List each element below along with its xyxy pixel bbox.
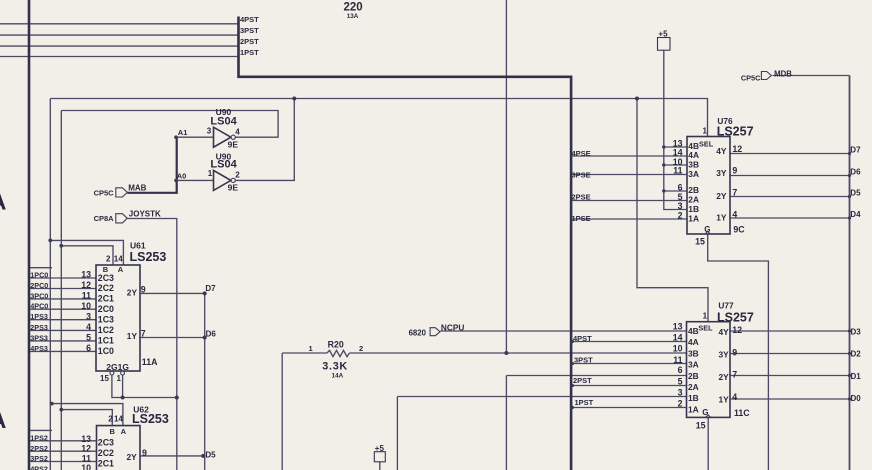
- svg-text:LS253: LS253: [130, 250, 167, 264]
- svg-text:1PS3: 1PS3: [30, 312, 48, 321]
- svg-text:13A: 13A: [347, 13, 359, 20]
- svg-text:6: 6: [678, 365, 683, 375]
- svg-text:D3: D3: [851, 327, 862, 336]
- svg-text:2: 2: [678, 399, 683, 409]
- svg-text:5: 5: [86, 332, 91, 342]
- svg-text:SEL: SEL: [699, 139, 714, 148]
- svg-text:1A: 1A: [688, 213, 699, 223]
- svg-text:D1: D1: [851, 372, 862, 381]
- svg-text:2: 2: [106, 254, 111, 263]
- svg-text:4A: 4A: [688, 337, 699, 347]
- svg-text:CP5C: CP5C: [94, 189, 115, 198]
- svg-text:3PST: 3PST: [240, 26, 259, 35]
- svg-text:15: 15: [100, 374, 109, 383]
- svg-text:10: 10: [81, 463, 91, 470]
- svg-text:7: 7: [141, 329, 146, 339]
- svg-text:2: 2: [678, 211, 683, 221]
- svg-text:1Y: 1Y: [127, 331, 138, 341]
- svg-text:LS257: LS257: [717, 310, 754, 324]
- svg-text:12: 12: [81, 443, 91, 453]
- svg-text:12: 12: [732, 144, 742, 154]
- svg-text:3: 3: [678, 388, 683, 398]
- svg-text:1PST: 1PST: [575, 398, 594, 407]
- svg-text:SEL: SEL: [698, 324, 713, 333]
- svg-text:D6: D6: [850, 168, 861, 177]
- svg-text:9: 9: [732, 347, 737, 357]
- svg-text:14: 14: [114, 415, 123, 424]
- svg-text:A0: A0: [177, 172, 187, 181]
- svg-text:1PS2: 1PS2: [30, 433, 48, 442]
- svg-text:4Y: 4Y: [719, 327, 730, 337]
- svg-text:4PST: 4PST: [573, 334, 592, 343]
- svg-text:3B: 3B: [688, 160, 699, 170]
- svg-text:2Y: 2Y: [719, 372, 730, 382]
- svg-text:U61: U61: [130, 240, 146, 250]
- svg-text:1PC0: 1PC0: [30, 271, 48, 280]
- svg-text:3B: 3B: [688, 349, 699, 359]
- svg-text:11: 11: [673, 355, 682, 365]
- svg-text:2: 2: [359, 344, 363, 353]
- svg-text:D6: D6: [206, 329, 217, 338]
- svg-text:1C0: 1C0: [98, 346, 114, 356]
- svg-text:13: 13: [673, 321, 683, 331]
- svg-text:4Y: 4Y: [716, 146, 727, 156]
- svg-text:A: A: [0, 189, 6, 215]
- svg-text:10: 10: [673, 344, 683, 354]
- svg-text:4PC0: 4PC0: [30, 302, 48, 311]
- svg-text:6820: 6820: [409, 328, 427, 337]
- svg-text:4PST: 4PST: [240, 15, 259, 24]
- svg-text:2B: 2B: [688, 371, 699, 381]
- svg-text:9E: 9E: [228, 183, 239, 193]
- svg-text:3.3K: 3.3K: [322, 361, 348, 373]
- svg-text:1C2: 1C2: [98, 325, 114, 335]
- svg-text:LS04: LS04: [210, 115, 237, 127]
- svg-text:D7: D7: [205, 284, 216, 293]
- svg-text:D5: D5: [205, 451, 216, 460]
- svg-text:2C2: 2C2: [98, 283, 114, 293]
- svg-text:1B: 1B: [688, 204, 699, 214]
- svg-text:2: 2: [235, 170, 240, 179]
- svg-text:5: 5: [678, 376, 683, 386]
- svg-text:3PST: 3PST: [574, 356, 593, 365]
- svg-text:4PS2: 4PS2: [30, 464, 48, 470]
- svg-text:3PS2: 3PS2: [30, 454, 48, 463]
- svg-text:3PC0: 3PC0: [30, 291, 48, 300]
- svg-text:2PSE: 2PSE: [572, 192, 591, 201]
- svg-text:1A: 1A: [688, 404, 699, 414]
- svg-text:1C1: 1C1: [98, 335, 114, 345]
- svg-text:1: 1: [117, 374, 122, 383]
- svg-text:6: 6: [678, 182, 683, 192]
- svg-text:9: 9: [732, 166, 737, 176]
- svg-text:10: 10: [81, 301, 91, 311]
- svg-text:2C3: 2C3: [98, 438, 114, 448]
- svg-text:4PSE: 4PSE: [572, 149, 591, 158]
- svg-text:13: 13: [81, 434, 91, 444]
- svg-text:11A: 11A: [142, 357, 158, 367]
- svg-text:15: 15: [696, 420, 706, 430]
- svg-text:4: 4: [86, 322, 91, 332]
- svg-text:CP8A: CP8A: [94, 214, 115, 223]
- svg-text:2: 2: [108, 415, 113, 424]
- svg-text:2C0: 2C0: [98, 304, 114, 314]
- svg-text:3PSE: 3PSE: [572, 170, 591, 179]
- svg-text:LS04: LS04: [210, 159, 237, 171]
- svg-text:D7: D7: [850, 145, 861, 154]
- svg-text:3: 3: [678, 201, 683, 211]
- svg-text:2PST: 2PST: [573, 376, 592, 385]
- svg-text:3PS3: 3PS3: [30, 333, 48, 342]
- svg-text:3Y: 3Y: [716, 168, 727, 178]
- svg-text:R20: R20: [328, 339, 344, 349]
- svg-text:4: 4: [732, 392, 737, 402]
- svg-text:15: 15: [695, 236, 705, 246]
- svg-text:LS257: LS257: [717, 125, 754, 139]
- svg-text:A: A: [121, 427, 127, 436]
- svg-text:A1: A1: [178, 128, 188, 137]
- svg-text:220: 220: [344, 2, 363, 14]
- svg-text:6: 6: [86, 343, 91, 353]
- svg-text:1: 1: [703, 126, 708, 135]
- svg-text:3A: 3A: [688, 360, 699, 370]
- svg-text:2G1G: 2G1G: [106, 362, 129, 372]
- svg-text:LS253: LS253: [132, 412, 169, 426]
- svg-text:+5: +5: [658, 29, 668, 38]
- svg-text:A: A: [0, 407, 6, 433]
- svg-text:9: 9: [142, 448, 147, 458]
- svg-text:2C3: 2C3: [98, 273, 114, 283]
- svg-text:11C: 11C: [734, 408, 750, 418]
- svg-text:14: 14: [673, 333, 683, 343]
- svg-text:1B: 1B: [688, 393, 699, 403]
- svg-text:A: A: [118, 265, 124, 274]
- svg-text:2PS2: 2PS2: [30, 444, 48, 453]
- svg-text:13: 13: [81, 270, 91, 280]
- svg-text:2C1: 2C1: [98, 458, 114, 468]
- svg-text:D4: D4: [850, 210, 861, 219]
- svg-text:4B: 4B: [688, 326, 699, 336]
- svg-text:NCPU: NCPU: [441, 322, 465, 332]
- svg-text:1: 1: [703, 312, 708, 321]
- svg-text:D2: D2: [851, 350, 862, 359]
- svg-text:3Y: 3Y: [719, 350, 730, 360]
- svg-text:MAB: MAB: [128, 184, 146, 193]
- svg-text:7: 7: [732, 188, 737, 198]
- svg-text:B: B: [110, 427, 116, 436]
- svg-text:D0: D0: [851, 394, 862, 403]
- svg-text:1: 1: [309, 344, 313, 353]
- svg-text:9C: 9C: [733, 224, 745, 234]
- svg-text:11: 11: [673, 166, 682, 176]
- svg-text:14: 14: [114, 254, 123, 263]
- svg-text:2A: 2A: [688, 194, 699, 204]
- svg-text:4: 4: [732, 210, 737, 220]
- svg-text:3: 3: [207, 127, 212, 136]
- svg-text:2C2: 2C2: [98, 448, 114, 458]
- svg-text:G: G: [704, 225, 710, 234]
- svg-text:2PST: 2PST: [240, 37, 259, 46]
- svg-text:3: 3: [86, 311, 91, 321]
- svg-text:G: G: [702, 408, 708, 417]
- svg-text:2Y: 2Y: [716, 191, 727, 201]
- svg-text:1PSE: 1PSE: [572, 214, 591, 223]
- svg-text:2Y: 2Y: [127, 288, 138, 298]
- svg-text:2Y: 2Y: [127, 452, 138, 462]
- svg-text:CP5C: CP5C: [741, 74, 761, 83]
- svg-text:2C1: 2C1: [98, 294, 114, 304]
- svg-text:2PC0: 2PC0: [30, 281, 48, 290]
- svg-text:4PS3: 4PS3: [30, 344, 48, 353]
- svg-text:9: 9: [141, 285, 146, 295]
- svg-text:12: 12: [81, 280, 91, 290]
- svg-text:1C3: 1C3: [98, 314, 114, 324]
- svg-text:1Y: 1Y: [716, 212, 727, 222]
- svg-text:3A: 3A: [688, 169, 699, 179]
- svg-text:9E: 9E: [228, 139, 239, 149]
- svg-text:1Y: 1Y: [719, 394, 730, 404]
- svg-text:D5: D5: [850, 189, 861, 198]
- svg-text:14A: 14A: [332, 372, 344, 379]
- svg-text:12: 12: [732, 325, 742, 335]
- svg-text:1: 1: [208, 169, 213, 178]
- svg-text:2A: 2A: [688, 382, 699, 392]
- svg-text:2PS3: 2PS3: [30, 323, 48, 332]
- svg-text:1PST: 1PST: [240, 48, 259, 57]
- svg-text:4: 4: [235, 127, 240, 136]
- svg-text:JOYSTK: JOYSTK: [129, 210, 161, 219]
- svg-text:MDB: MDB: [774, 69, 792, 78]
- svg-text:U77: U77: [718, 300, 734, 310]
- svg-text:7: 7: [732, 370, 737, 380]
- svg-text:+5: +5: [375, 444, 385, 453]
- svg-text:11: 11: [82, 291, 91, 301]
